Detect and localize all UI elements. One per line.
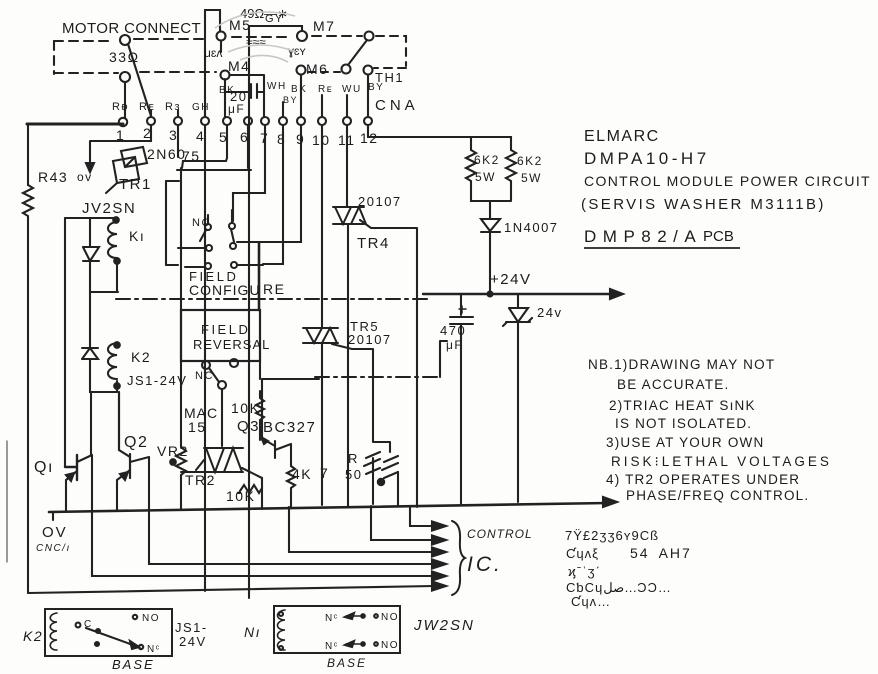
svg-text:24V: 24V	[179, 634, 207, 649]
svg-text:REVERSAL: REVERSAL	[193, 337, 270, 352]
svg-text:8: 8	[277, 131, 286, 147]
svg-text:ov: ov	[77, 170, 93, 184]
svg-text:Q2: Q2	[124, 434, 148, 451]
svg-text:PHASE/FREQ CONTROL.: PHASE/FREQ CONTROL.	[626, 488, 809, 503]
svg-text:NC: NC	[195, 370, 214, 382]
svg-text:20107: 20107	[348, 332, 392, 347]
svg-text:K2: K2	[23, 628, 43, 644]
svg-text:C: C	[84, 619, 93, 630]
svg-text:JS1-24V: JS1-24V	[127, 373, 187, 388]
svg-text:TR1: TR1	[119, 176, 152, 193]
svg-text:NO: NO	[142, 613, 160, 624]
svg-text:4K: 4K	[292, 466, 312, 482]
svg-text:TR4: TR4	[357, 235, 390, 252]
svg-text:WU: WU	[342, 84, 362, 95]
svg-text:Qı: Qı	[34, 459, 54, 476]
svg-text:10: 10	[312, 132, 331, 148]
svg-text:μF: μF	[228, 102, 245, 116]
svg-text:BC327: BC327	[263, 419, 316, 436]
svg-text:JS1-: JS1-	[175, 620, 208, 635]
svg-text:K2: K2	[131, 349, 151, 365]
svg-text:CNC/ı: CNC/ı	[36, 543, 71, 554]
svg-text:BY: BY	[368, 82, 384, 93]
svg-text:1N4007: 1N4007	[504, 220, 559, 235]
svg-text:9: 9	[296, 131, 305, 147]
svg-text:DMP82/A: DMP82/A	[584, 227, 702, 246]
svg-text:NO: NO	[381, 640, 399, 651]
svg-text:75: 75	[182, 148, 201, 164]
svg-text:M6: M6	[306, 61, 328, 77]
svg-text:μɛʌ: μɛʌ	[204, 46, 222, 60]
svg-text:Nı: Nı	[244, 624, 261, 640]
svg-text:BK: BK	[291, 84, 307, 95]
svg-text:6: 6	[240, 129, 249, 145]
svg-text:33Ω: 33Ω	[109, 49, 140, 65]
svg-text:IC.: IC.	[467, 553, 503, 576]
svg-text:TR2: TR2	[185, 472, 216, 488]
svg-text:≈≈≈: ≈≈≈	[246, 35, 266, 49]
svg-text:R: R	[348, 451, 359, 466]
svg-text:Rᴆ: Rᴆ	[112, 101, 129, 113]
svg-text:MOTOR CONNECT: MOTOR CONNECT	[62, 20, 201, 37]
svg-text:3)USE AT YOUR OWN: 3)USE AT YOUR OWN	[606, 435, 764, 450]
svg-text:4: 4	[196, 128, 205, 144]
svg-text:15: 15	[188, 419, 207, 435]
svg-text:470: 470	[440, 323, 466, 338]
svg-text:CNA: CNA	[375, 97, 419, 114]
svg-text:BE ACCURATE.: BE ACCURATE.	[617, 377, 729, 392]
svg-text:BY: BY	[283, 95, 298, 105]
svg-text:WH: WH	[267, 81, 287, 92]
svg-text:CONFIGU: CONFIGU	[189, 282, 261, 298]
svg-text:VR2: VR2	[157, 443, 189, 459]
svg-text:5W: 5W	[521, 171, 542, 185]
svg-text:20107: 20107	[358, 194, 402, 209]
svg-text:5W: 5W	[475, 170, 496, 184]
svg-text:PCB: PCB	[703, 228, 734, 245]
svg-text:Nᶜ: Nᶜ	[325, 641, 339, 652]
svg-text:Rᴈ: Rᴈ	[165, 101, 181, 113]
svg-text:FIELD: FIELD	[201, 322, 250, 337]
svg-text:10K: 10K	[231, 400, 260, 416]
svg-text:7Ÿ£2ʒʒ6ʏ9Cß: 7Ÿ£2ʒʒ6ʏ9Cß	[565, 528, 659, 543]
svg-text:24v: 24v	[537, 305, 562, 320]
svg-text:Rᴇ: Rᴇ	[139, 101, 155, 113]
svg-text:10K: 10K	[226, 488, 255, 504]
svg-text:NO: NO	[381, 612, 399, 623]
svg-text:JW2SN: JW2SN	[413, 617, 475, 634]
svg-text:Nᶜ: Nᶜ	[325, 613, 339, 624]
svg-text:3: 3	[169, 127, 178, 143]
svg-text:54 AH7: 54 AH7	[630, 545, 692, 561]
svg-text:BASE: BASE	[327, 656, 367, 670]
svg-text:M4: M4	[228, 58, 250, 74]
svg-text:DMPA10-H7: DMPA10-H7	[584, 149, 710, 168]
svg-text:+24V: +24V	[490, 271, 531, 288]
svg-text:Nᶜ: Nᶜ	[147, 644, 161, 655]
svg-text:OV: OV	[42, 524, 68, 541]
svg-text:Rᴇ: Rᴇ	[318, 84, 333, 95]
svg-text:2)TRIAC HEAT SıNK: 2)TRIAC HEAT SıNK	[609, 398, 756, 413]
svg-text:NB.1)DRAWING MAY NOT: NB.1)DRAWING MAY NOT	[588, 357, 775, 372]
svg-text:Kı: Kı	[129, 228, 145, 244]
svg-text:NC: NC	[192, 217, 211, 229]
svg-text:Ƈɥʌ…: Ƈɥʌ…	[571, 594, 611, 609]
svg-text:CƅCɥصل…ƆƆ…: CƅCɥصل…ƆƆ…	[566, 580, 672, 595]
svg-text:Q3: Q3	[237, 418, 260, 435]
svg-text:6K2: 6K2	[517, 154, 543, 168]
svg-text:ELMARC: ELMARC	[584, 128, 660, 145]
svg-text:11: 11	[338, 132, 356, 148]
svg-text:JV2SN: JV2SN	[82, 200, 136, 217]
svg-text:Ƈɥʌξ: Ƈɥʌξ	[566, 546, 599, 561]
svg-text:2: 2	[143, 125, 152, 141]
svg-text:6K2: 6K2	[474, 153, 500, 167]
svg-text:2N60: 2N60	[147, 146, 186, 162]
svg-text:M7: M7	[313, 18, 335, 34]
svg-text:50: 50	[345, 467, 362, 482]
svg-text:CONTROL MODULE POWER CIRCUIT: CONTROL MODULE POWER CIRCUIT	[584, 173, 871, 189]
svg-text:CONTROL: CONTROL	[467, 527, 533, 541]
svg-text:7: 7	[260, 130, 269, 146]
svg-text:R43: R43	[38, 169, 68, 185]
svg-text:(SERVIS WASHER M3111B): (SERVIS WASHER M3111B)	[581, 196, 826, 213]
svg-text:ϗˉˈʒˊ: ϗˉˈʒˊ	[568, 564, 601, 579]
svg-text:BASE: BASE	[112, 657, 155, 672]
svg-text:RE: RE	[263, 281, 285, 297]
svg-text:RISK⁝LETHAL VOLTAGES: RISK⁝LETHAL VOLTAGES	[611, 454, 832, 469]
svg-text:7: 7	[320, 465, 329, 481]
svg-text:12: 12	[360, 130, 379, 146]
svg-text:4) TR2 OPERATES UNDER: 4) TR2 OPERATES UNDER	[606, 472, 800, 487]
svg-text:ɣɛʏ: ɣɛʏ	[288, 44, 307, 58]
svg-text:5: 5	[219, 129, 228, 145]
svg-text:1: 1	[116, 127, 125, 143]
svg-text:GH: GH	[192, 102, 210, 113]
svg-text:IS NOT ISOLATED.: IS NOT ISOLATED.	[615, 416, 752, 431]
svg-text:μF: μF	[446, 338, 463, 352]
